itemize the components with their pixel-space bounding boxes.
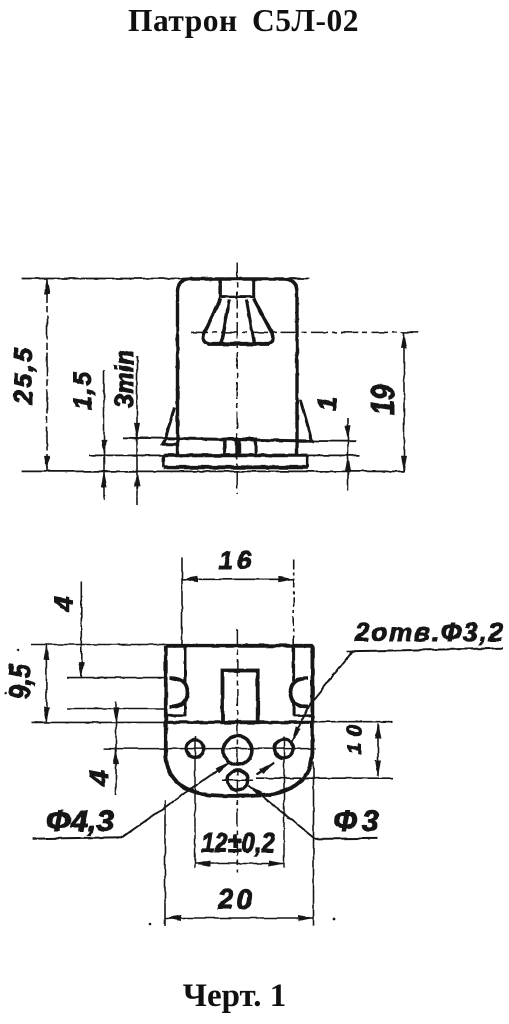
svg-text:20: 20 [217,884,252,915]
svg-text:9,5: 9,5 [4,663,37,699]
svg-text:Ф3: Ф3 [334,805,379,838]
svg-text:Ф4,3: Ф4,3 [46,805,114,838]
svg-text:1: 1 [312,397,342,411]
svg-text:25,5: 25,5 [10,347,38,405]
svg-text:16: 16 [219,547,252,575]
svg-text:19: 19 [365,385,401,415]
svg-text:3min: 3min [109,350,139,408]
svg-text:2отв.Ф3,2: 2отв.Ф3,2 [354,617,504,647]
svg-text:12±0,2: 12±0,2 [201,827,275,858]
svg-text:4: 4 [84,770,114,786]
svg-text:10: 10 [344,725,366,754]
svg-text:4: 4 [49,596,79,612]
svg-text:1,5: 1,5 [69,371,97,410]
